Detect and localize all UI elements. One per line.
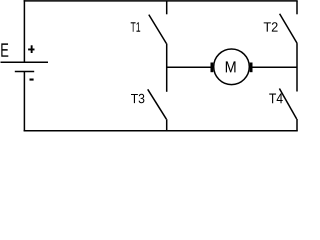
switch T1 fixed contact wire	[166, 1, 168, 14]
label E	[1, 43, 8, 56]
label T3	[131, 94, 144, 103]
label - polarity mark	[30, 79, 34, 81]
motor M right brush	[250, 63, 253, 73]
wire top bus	[24, 0, 298, 2]
switch T3 blade	[148, 89, 167, 119]
label + polarity mark	[31, 45, 33, 53]
battery E negative plate	[15, 71, 34, 73]
label T2	[264, 22, 278, 31]
label T4	[269, 94, 283, 104]
wire right leg middle segment	[296, 43, 298, 91]
wire motor right lead	[253, 66, 298, 68]
switch T2 fixed contact wire	[296, 1, 298, 14]
wire bottom bus	[24, 130, 298, 132]
wire left bus lower segment	[23, 72, 25, 132]
switch T4 blade	[279, 89, 296, 120]
motor M body circle	[214, 49, 250, 85]
wire left leg middle segment	[166, 44, 168, 92]
wire left bus upper segment	[23, 0, 25, 62]
switch T1 blade	[149, 15, 167, 44]
motor M left brush	[211, 63, 214, 73]
wire right leg bottom segment	[296, 119, 298, 131]
wire motor left lead	[167, 66, 211, 68]
label T1	[131, 22, 141, 31]
label M	[226, 61, 236, 72]
battery E positive plate	[1, 61, 49, 63]
wire left leg bottom segment	[166, 119, 168, 131]
switch T2 blade	[280, 14, 297, 43]
